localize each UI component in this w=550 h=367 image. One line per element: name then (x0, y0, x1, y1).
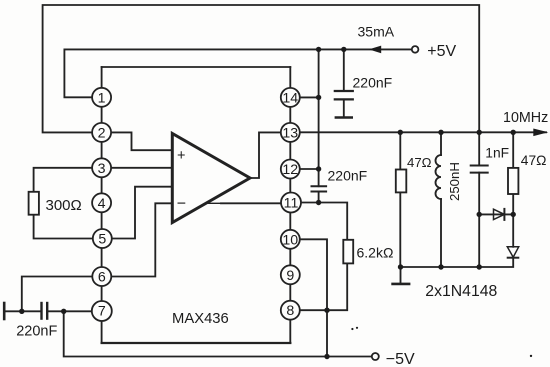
svg-text:+5V: +5V (427, 43, 456, 60)
svg-text:10MHz: 10MHz (503, 110, 548, 126)
svg-text:3: 3 (98, 161, 106, 177)
svg-text:−5V: −5V (386, 351, 415, 367)
svg-text:1nF: 1nF (485, 146, 509, 161)
svg-text:1: 1 (98, 90, 106, 106)
svg-text:−: − (177, 195, 186, 212)
svg-text:13: 13 (282, 125, 298, 141)
svg-text:2: 2 (98, 125, 106, 141)
svg-text:220nF: 220nF (328, 168, 368, 184)
svg-text:10: 10 (282, 232, 298, 248)
svg-text:11: 11 (284, 196, 299, 212)
svg-text:6: 6 (98, 270, 106, 286)
svg-text:14: 14 (282, 90, 298, 106)
svg-text:220nF: 220nF (353, 75, 393, 91)
svg-text:47Ω: 47Ω (521, 153, 547, 168)
svg-text:47Ω: 47Ω (407, 155, 432, 170)
svg-text:9: 9 (286, 268, 294, 284)
svg-text:250nH: 250nH (447, 162, 462, 201)
svg-text:4: 4 (98, 196, 106, 212)
svg-text:220nF: 220nF (16, 324, 57, 340)
svg-text:8: 8 (286, 303, 294, 319)
svg-text:35mA: 35mA (358, 24, 395, 40)
svg-text:7: 7 (98, 304, 106, 320)
svg-text:MAX436: MAX436 (172, 311, 229, 327)
svg-text:6.2kΩ: 6.2kΩ (357, 245, 394, 261)
svg-text:12: 12 (282, 162, 298, 178)
svg-text:+: + (177, 148, 185, 164)
svg-text:2x1N4148: 2x1N4148 (425, 283, 497, 300)
svg-text:5: 5 (98, 232, 106, 248)
svg-text:300Ω: 300Ω (46, 197, 82, 214)
